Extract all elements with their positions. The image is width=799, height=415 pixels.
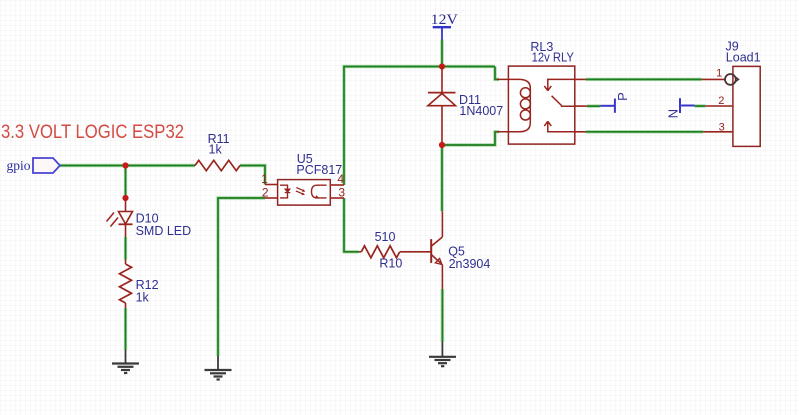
- svg-text:3: 3: [338, 186, 345, 200]
- relay right pin stub NC: [575, 78, 586, 80]
- junction dot A: [122, 162, 128, 168]
- ground under R12: [112, 350, 139, 373]
- resistor R10: [359, 230, 431, 271]
- pin stub 1: [265, 184, 278, 186]
- svg-text:510: 510: [375, 230, 396, 244]
- svg-text:1N4007: 1N4007: [459, 104, 503, 118]
- svg-text:12v RLY: 12v RLY: [532, 50, 575, 64]
- wires (core layer): [60, 40, 705, 357]
- ground under Q5: [429, 342, 456, 366]
- connector J9: [702, 40, 761, 147]
- J9 pin 2 line: [705, 105, 733, 107]
- transistor Q5: [431, 211, 490, 289]
- svg-text:3.3 VOLT LOGIC ESP32: 3.3 VOLT LOGIC ESP32: [1, 121, 184, 143]
- J9 pin 1 line: [702, 78, 726, 80]
- svg-text:PCF817: PCF817: [296, 163, 342, 177]
- svg-text:gpio: gpio: [7, 158, 31, 173]
- ground under U5 pin2 wire: [205, 356, 232, 380]
- power flag 12V: [431, 12, 458, 39]
- switch top contact: [544, 79, 575, 90]
- svg-text:R10: R10: [379, 257, 402, 271]
- relay right pin stub NO: [575, 131, 586, 133]
- relay coil: [497, 79, 530, 131]
- net flag P: [600, 92, 630, 113]
- svg-text:2: 2: [262, 186, 269, 200]
- svg-text:12V: 12V: [431, 12, 458, 28]
- junction dot B: [122, 195, 128, 201]
- svg-text:SMD LED: SMD LED: [136, 224, 192, 238]
- optocoupler U5: [261, 152, 345, 205]
- pin stub 4: [330, 184, 344, 186]
- svg-text:3: 3: [719, 121, 725, 133]
- junction dot top: [439, 63, 445, 69]
- diode D11: [428, 67, 503, 146]
- svg-text:Load1: Load1: [726, 51, 761, 65]
- wires (halo layer): [60, 40, 705, 357]
- coupling arrows: [296, 188, 304, 194]
- junction dot bottom of D11: [439, 142, 445, 148]
- net port gpio: [7, 158, 61, 173]
- svg-text:N: N: [665, 109, 680, 118]
- resistor R11: [195, 132, 240, 171]
- svg-text:2: 2: [718, 95, 724, 107]
- switch bottom contact: [544, 121, 575, 132]
- svg-text:1: 1: [716, 68, 722, 80]
- relay RL3: [497, 40, 575, 144]
- J9 pin 1 circle: [725, 74, 736, 85]
- net flag N: [665, 98, 694, 118]
- inner LED: [280, 185, 288, 198]
- LED D10: [107, 198, 192, 238]
- svg-text:1k: 1k: [136, 290, 150, 304]
- relay right pin stub common: [575, 105, 587, 107]
- svg-text:1k: 1k: [209, 143, 223, 157]
- switch blade: [552, 96, 575, 106]
- pin stub 2: [265, 197, 278, 199]
- pin stub 3: [330, 197, 344, 199]
- svg-text:1: 1: [261, 172, 268, 186]
- svg-text:2n3904: 2n3904: [449, 257, 491, 271]
- svg-text:P: P: [615, 92, 630, 101]
- J9 pin 3 line: [703, 131, 733, 133]
- phototransistor: [312, 185, 327, 198]
- resistor R12: [120, 260, 159, 309]
